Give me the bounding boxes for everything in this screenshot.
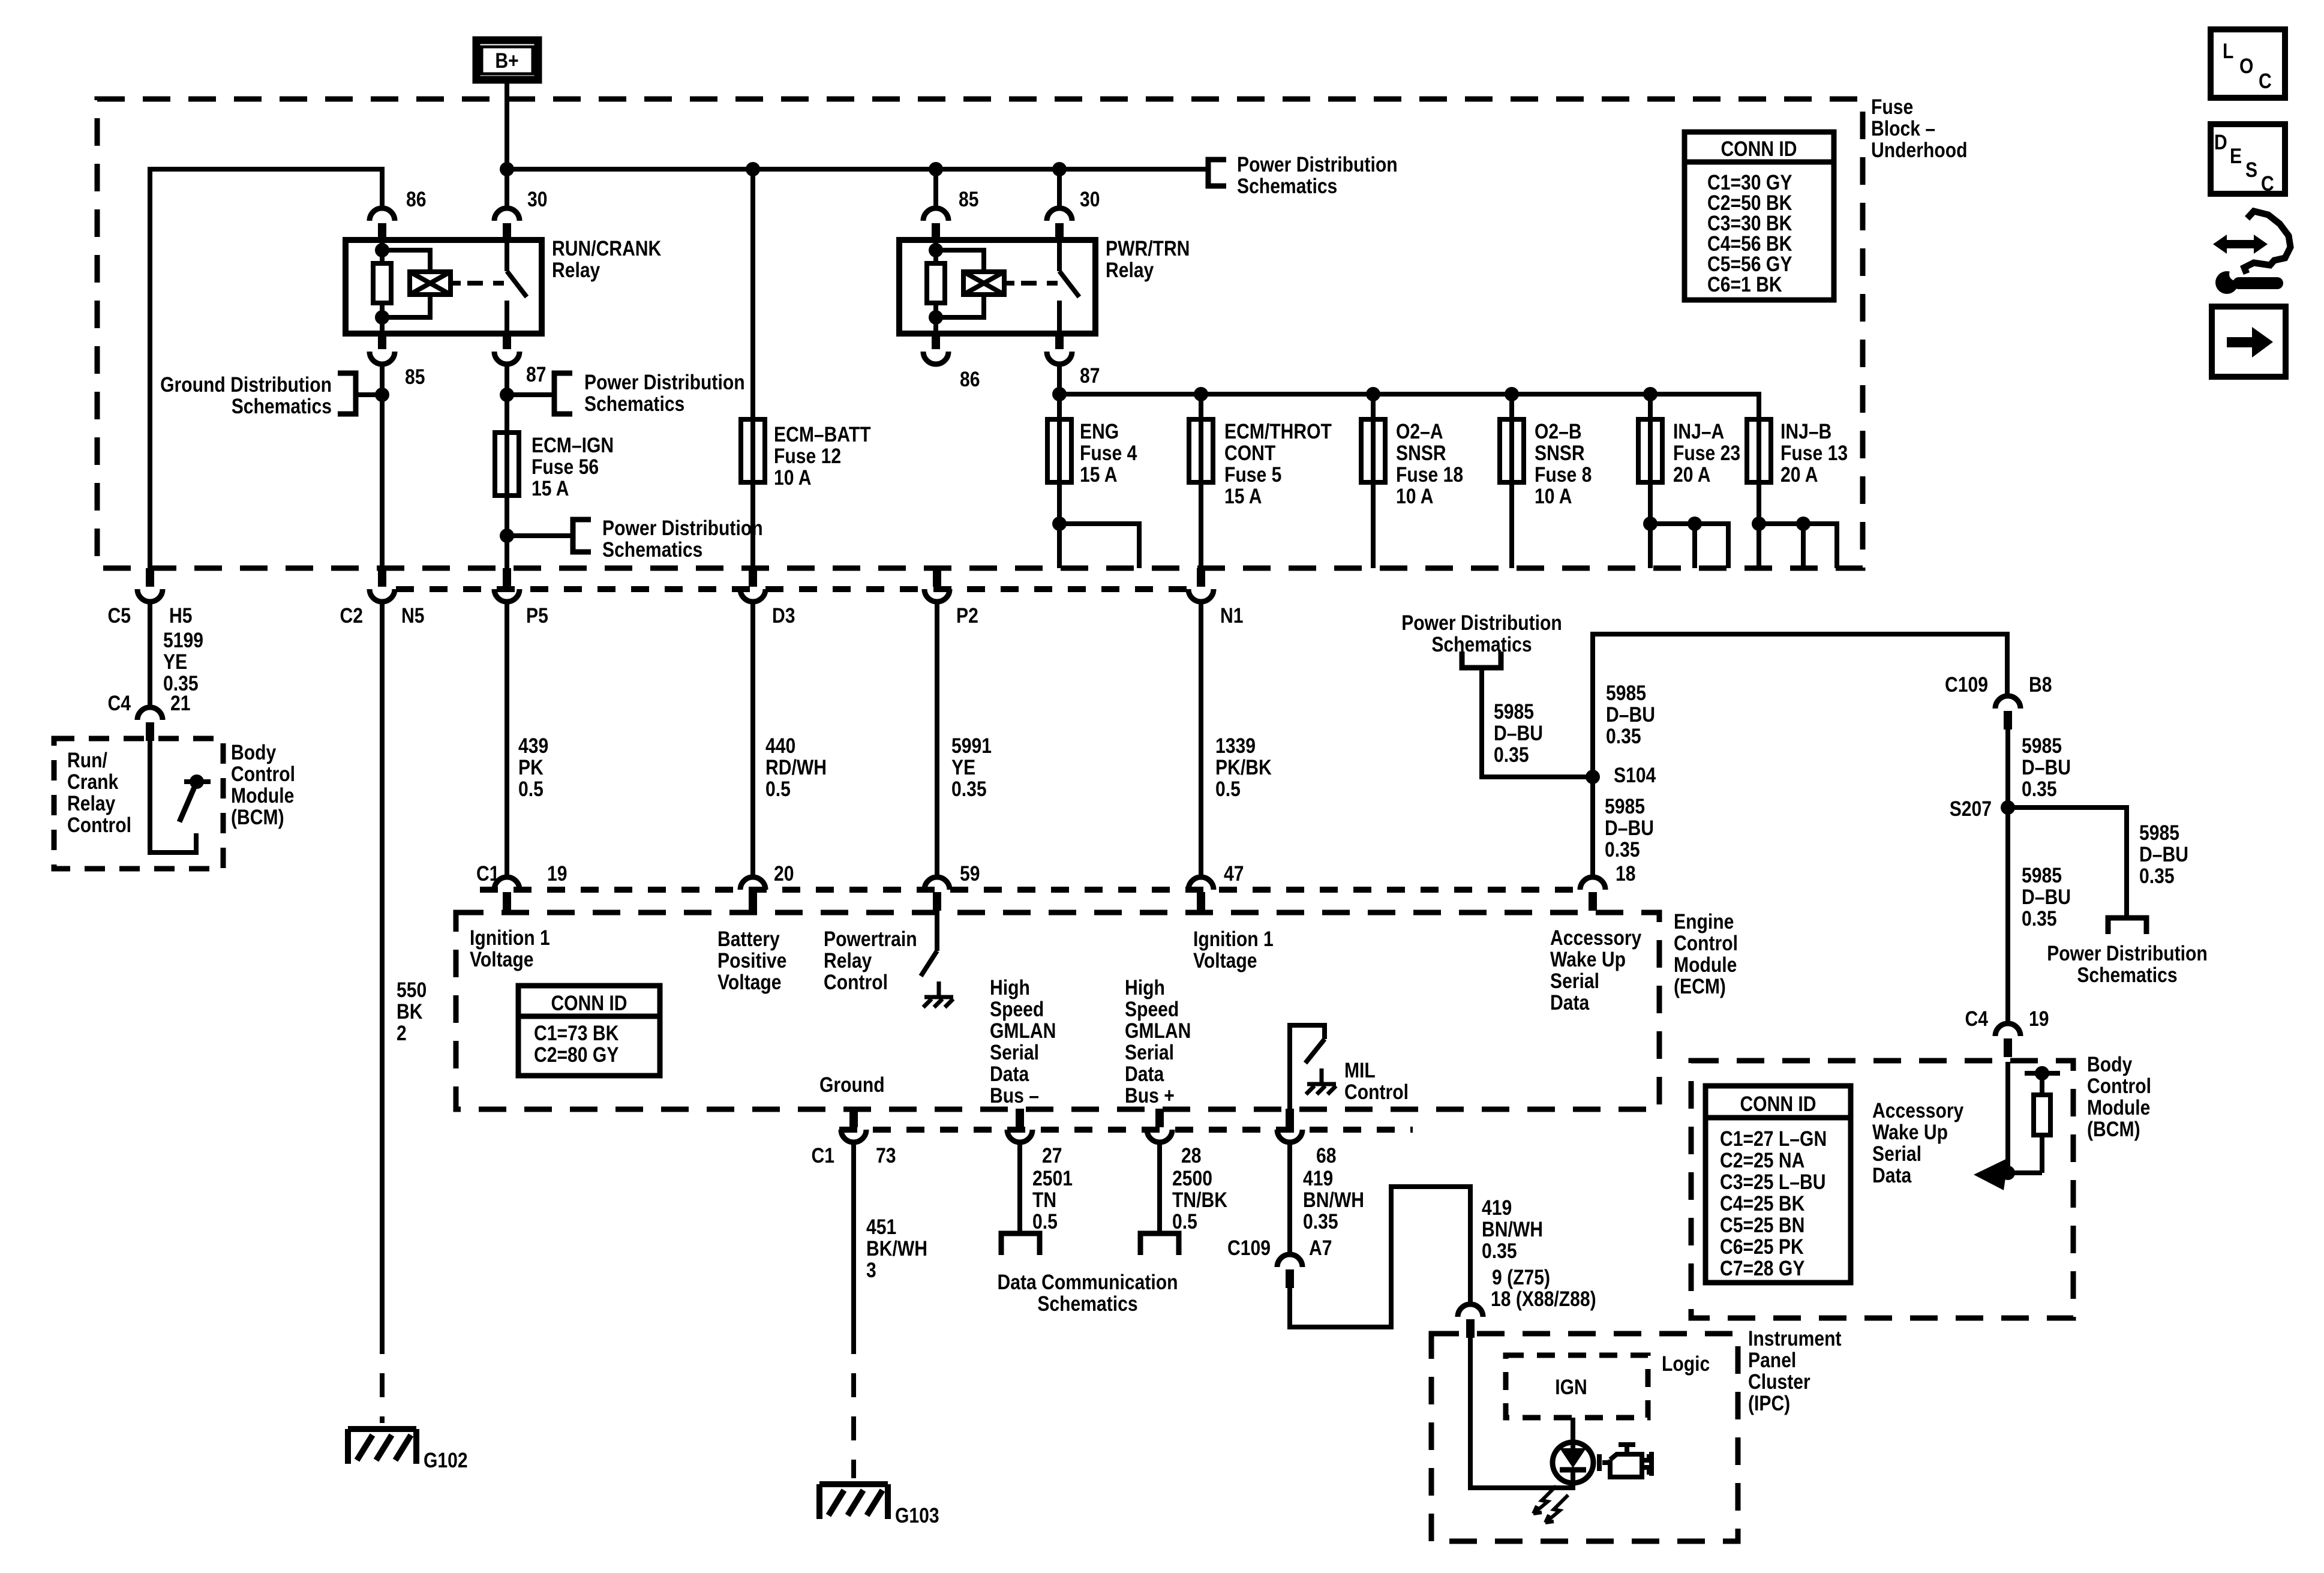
svg-text:Voltage: Voltage [1193, 949, 1257, 972]
relay switch [1059, 240, 1079, 334]
svg-text:TN/BK: TN/BK [1172, 1188, 1227, 1212]
svg-text:CONT: CONT [1224, 442, 1275, 465]
pin 87 connector [1047, 331, 1072, 364]
svg-text:YE: YE [163, 650, 187, 674]
arrow line [1986, 1170, 2042, 1175]
svg-text:0.35: 0.35 [2139, 864, 2175, 888]
svg-text:C1=27 L–GN: C1=27 L–GN [1720, 1127, 1827, 1151]
svg-text:47: 47 [1224, 862, 1244, 885]
svg-text:419: 419 [1482, 1196, 1512, 1220]
ECM pin C1 73 connector [841, 1109, 866, 1142]
wire relay87 to ECM-IGN fuse [505, 364, 509, 568]
svg-text:Fuse: Fuse [1871, 95, 1913, 119]
svg-text:Fuse 23: Fuse 23 [1673, 442, 1740, 465]
svg-text:(IPC): (IPC) [1748, 1392, 1790, 1415]
svg-text:451: 451 [866, 1215, 896, 1239]
wire ECM/THROT column [1199, 394, 1203, 568]
svg-text:Ignition 1: Ignition 1 [1193, 927, 1274, 951]
engine icon [1599, 1445, 1652, 1477]
BCM right dashed box [1691, 1061, 2073, 1318]
svg-text:C5=25 BN: C5=25 BN [1720, 1214, 1804, 1237]
svg-text:Module: Module [2087, 1096, 2150, 1119]
svg-text:Panel: Panel [1748, 1349, 1796, 1372]
svg-text:86: 86 [406, 188, 427, 211]
splice S207 [2001, 800, 2015, 815]
svg-text:Crank: Crank [67, 770, 119, 794]
svg-text:TN: TN [1032, 1188, 1056, 1212]
relay coil branch wires [382, 240, 430, 334]
svg-text:Cluster: Cluster [1748, 1370, 1810, 1394]
connector P2 [924, 568, 950, 602]
svg-text:RD/WH: RD/WH [765, 756, 827, 779]
svg-text:59: 59 [960, 862, 980, 885]
fuse O2-B SNSR Fuse 8 [1500, 419, 1524, 482]
wire pin 28 down [1157, 1142, 1162, 1231]
svg-text:0.35: 0.35 [951, 778, 987, 801]
svg-text:PK: PK [518, 756, 544, 779]
IGN logic dashed box [1506, 1355, 1648, 1418]
svg-text:INJ–A: INJ–A [1673, 420, 1724, 443]
ECM pin 18 connector [1580, 877, 1605, 911]
svg-text:27: 27 [1042, 1144, 1062, 1167]
svg-text:10 A: 10 A [774, 466, 812, 490]
coil stub [451, 281, 461, 286]
CONN ID table fuse block [1685, 132, 1834, 300]
wire C2 column down [380, 602, 385, 1330]
svg-text:Schematics: Schematics [602, 538, 702, 562]
fuse ECM-IGN Fuse 56 [495, 433, 519, 496]
svg-text:Power Distribution: Power Distribution [2047, 942, 2208, 965]
svg-text:5985: 5985 [1605, 795, 1645, 818]
fuse ECM-BATT Fuse 12 [741, 419, 765, 482]
svg-text:5991: 5991 [951, 734, 992, 758]
CONN ID table BCM [1706, 1086, 1851, 1283]
svg-text:Serial: Serial [1872, 1142, 1921, 1166]
svg-text:1339: 1339 [1215, 734, 1256, 758]
wire P5 column down to ECM pin 19 [505, 602, 509, 875]
relay coil box with X [963, 272, 1004, 295]
svg-text:5985: 5985 [1606, 682, 1646, 705]
wrench and arrow icon [2213, 211, 2290, 294]
wire relay87 pwr to bus2 [1057, 364, 1062, 568]
LED light arrows [1533, 1486, 1556, 1514]
svg-text:Power Distribution: Power Distribution [1237, 153, 1398, 176]
svg-text:Relay: Relay [67, 792, 116, 815]
node top bus [150, 169, 382, 568]
svg-text:0.35: 0.35 [1303, 1210, 1338, 1233]
svg-text:0.5: 0.5 [1032, 1210, 1058, 1233]
svg-text:C4: C4 [108, 692, 131, 715]
main serial data net top [1593, 634, 2007, 875]
svg-text:Accessory: Accessory [1550, 926, 1642, 950]
svg-text:5985: 5985 [2139, 821, 2179, 845]
ECM pin 20 connector [740, 877, 765, 911]
wire ground column [851, 1142, 856, 1330]
BCM run/crank dashed box [54, 739, 223, 869]
svg-text:B+: B+ [495, 49, 518, 73]
PWR/TRN relay [899, 169, 1190, 391]
svg-text:Block –: Block – [1871, 117, 1935, 140]
wire B+ down to bus [505, 83, 509, 207]
svg-text:C1: C1 [476, 862, 500, 885]
svg-text:H5: H5 [169, 604, 193, 628]
wire relay85 down to junction [380, 364, 385, 568]
wire to bracket [507, 533, 573, 538]
svg-text:10 A: 10 A [1396, 485, 1434, 508]
pin 30 connector [1047, 208, 1072, 242]
svg-text:Fuse 8: Fuse 8 [1535, 463, 1592, 487]
svg-text:P2: P2 [956, 604, 978, 628]
svg-text:85: 85 [959, 188, 979, 211]
svg-text:19: 19 [547, 862, 568, 885]
svg-text:P5: P5 [526, 604, 548, 628]
svg-text:Data: Data [990, 1062, 1029, 1086]
svg-text:Module: Module [231, 784, 294, 807]
svg-text:Fuse 13: Fuse 13 [1780, 442, 1848, 465]
ECM pin 59 connector [924, 877, 950, 911]
svg-text:O2–A: O2–A [1396, 420, 1443, 443]
svg-text:G103: G103 [895, 1504, 939, 1527]
svg-text:Data: Data [1125, 1062, 1164, 1086]
ECM pin 47 connector [1188, 877, 1214, 911]
wire O2-B column [1509, 394, 1514, 568]
svg-text:SNSR: SNSR [1396, 442, 1446, 465]
svg-text:Bus +: Bus + [1125, 1084, 1175, 1107]
connector C4 19 [1995, 1023, 2020, 1057]
svg-text:Voltage: Voltage [717, 971, 782, 994]
svg-text:IGN: IGN [1555, 1376, 1587, 1399]
ground G102 [348, 1429, 416, 1464]
bus2 horizontal with INJ-B drop [1059, 394, 1759, 568]
connector C109 B8 [1995, 696, 2020, 730]
ECM bottom connector dotted line [839, 1127, 1413, 1133]
wire B+ bus [507, 167, 1208, 172]
svg-text:ENG: ENG [1080, 420, 1119, 443]
svg-text:3: 3 [866, 1259, 876, 1282]
svg-text:High: High [990, 976, 1030, 999]
wire D3 column down to ECM pin 20 [750, 602, 755, 875]
junction dot below fuse 56 [500, 529, 514, 543]
svg-text:D–BU: D–BU [2022, 756, 2071, 779]
svg-text:C1: C1 [812, 1144, 835, 1167]
connector C109 A7 [1277, 1254, 1302, 1288]
svg-text:Fuse 4: Fuse 4 [1080, 442, 1137, 465]
wire A7 jog to IPC [1290, 1187, 1470, 1327]
fuse INJ-A Fuse 23 [1638, 419, 1662, 482]
svg-text:C2: C2 [340, 604, 364, 628]
svg-text:Ground Distribution: Ground Distribution [160, 373, 332, 397]
svg-text:Control: Control [1344, 1080, 1409, 1104]
svg-text:Schematics: Schematics [1431, 633, 1532, 656]
pin 30 connector [494, 208, 520, 242]
svg-text:Data Communication: Data Communication [998, 1271, 1178, 1294]
BCM serial data wire [2005, 1062, 2010, 1173]
pin 86 connector [923, 331, 948, 364]
svg-text:C2=25 NA: C2=25 NA [1720, 1149, 1804, 1172]
svg-text:Relay: Relay [552, 259, 600, 282]
svg-text:Control: Control [824, 971, 888, 994]
svg-text:Schematics: Schematics [584, 392, 684, 416]
DESC icon box [2211, 124, 2285, 196]
svg-text:Bus –: Bus – [990, 1084, 1039, 1107]
svg-text:0.35: 0.35 [2022, 907, 2057, 930]
svg-text:C6=1 BK: C6=1 BK [1707, 273, 1782, 296]
svg-text:D–BU: D–BU [1605, 816, 1654, 840]
svg-text:0.5: 0.5 [765, 778, 791, 801]
svg-text:(ECM): (ECM) [1674, 975, 1726, 998]
svg-text:20 A: 20 A [1673, 463, 1711, 487]
svg-text:0.35: 0.35 [1494, 743, 1529, 767]
bracket power distribution below fuse56 [573, 520, 591, 552]
junction dot bus2 start [1052, 387, 1067, 401]
relay coil branch wires [936, 240, 984, 334]
ECM pin 19 connector [494, 877, 520, 911]
wire bus to pin 85 [933, 169, 938, 207]
svg-text:C1=73 BK: C1=73 BK [534, 1022, 618, 1045]
svg-text:18: 18 [1616, 862, 1636, 885]
ECM top connector dotted line [480, 887, 1580, 893]
LOC icon box [2211, 29, 2285, 98]
junction dot ground distribution [375, 388, 389, 402]
svg-text:10 A: 10 A [1535, 485, 1572, 508]
relay resistor [373, 263, 391, 303]
svg-text:Schematics: Schematics [232, 395, 332, 418]
pin 85 connector [923, 208, 948, 242]
B+ terminal box [476, 40, 538, 80]
svg-text:0.5: 0.5 [1172, 1210, 1197, 1233]
svg-text:D3: D3 [772, 604, 795, 628]
svg-text:Ignition 1: Ignition 1 [470, 926, 550, 950]
svg-text:Schematics: Schematics [2077, 963, 2177, 987]
svg-text:5985: 5985 [2022, 734, 2062, 758]
linkage dashed [1021, 281, 1058, 286]
svg-text:C5: C5 [108, 604, 131, 628]
wire fuse12 column [750, 169, 755, 568]
svg-text:Voltage: Voltage [470, 948, 534, 971]
svg-text:20: 20 [774, 862, 794, 885]
svg-text:Logic: Logic [1662, 1352, 1710, 1376]
svg-text:Underhood: Underhood [1871, 139, 1968, 162]
svg-text:Body: Body [2087, 1053, 2133, 1076]
svg-text:Serial: Serial [990, 1041, 1039, 1064]
svg-text:0.35: 0.35 [1482, 1239, 1517, 1263]
svg-text:A7: A7 [1309, 1236, 1332, 1260]
wire O2-A column [1371, 394, 1376, 568]
svg-text:0.5: 0.5 [518, 778, 544, 801]
pin 87 connector [494, 331, 520, 364]
fuse ENG Fuse 4 [1047, 419, 1071, 482]
svg-text:Accessory: Accessory [1872, 1099, 1964, 1122]
junction dot pwr relay 85 [929, 162, 943, 176]
svg-text:ECM/THROT: ECM/THROT [1224, 420, 1332, 443]
svg-text:0.35: 0.35 [1605, 838, 1640, 861]
junction dot [2001, 1166, 2015, 1180]
svg-text:9 (Z75): 9 (Z75) [1492, 1266, 1550, 1289]
svg-text:D–BU: D–BU [2139, 843, 2188, 866]
IPC dashed box [1431, 1334, 1738, 1541]
svg-text:S104: S104 [1614, 764, 1656, 787]
BCM internal rail [2025, 1071, 2060, 1076]
connector line C2 row dotted [396, 586, 1188, 592]
svg-text:N5: N5 [401, 604, 425, 628]
ECM dashed box [456, 912, 1659, 1109]
fuse ECM/THROT CONT Fuse 5 [1189, 419, 1213, 482]
relay box [899, 240, 1095, 334]
svg-text:L: L [2223, 40, 2233, 63]
switch blade [179, 782, 197, 822]
wire to right bracket [507, 392, 554, 397]
svg-text:BN/WH: BN/WH [1482, 1218, 1543, 1241]
svg-text:Speed: Speed [1125, 998, 1179, 1021]
connector 18 X88/Z88 [1458, 1304, 1483, 1338]
svg-text:440: 440 [765, 734, 795, 758]
svg-text:Fuse 18: Fuse 18 [1396, 463, 1463, 487]
svg-text:PK/BK: PK/BK [1215, 756, 1272, 779]
wire P2 column down to ECM pin 59 [935, 602, 939, 875]
svg-text:Serial: Serial [1550, 969, 1599, 993]
svg-text:Relay: Relay [1106, 259, 1154, 282]
coil stub [1004, 281, 1014, 286]
wire pin 27 down [1017, 1142, 1022, 1231]
connector C5 H5 [137, 568, 163, 602]
svg-text:D–BU: D–BU [1494, 722, 1543, 745]
svg-text:Fuse 56: Fuse 56 [532, 455, 599, 479]
relay resistor [927, 263, 945, 303]
svg-text:87: 87 [1080, 364, 1100, 388]
connector P5 [494, 568, 520, 602]
svg-text:RUN/CRANK: RUN/CRANK [552, 237, 661, 260]
bracket power distribution top right [1208, 160, 1226, 186]
ground G103 [819, 1484, 888, 1519]
svg-text:5985: 5985 [2022, 864, 2062, 887]
dashed wire to G102 [380, 1330, 385, 1423]
junction dot pwr relay 30 [1052, 162, 1067, 176]
svg-text:C4=25 BK: C4=25 BK [1720, 1192, 1804, 1215]
linkage dashed [467, 281, 504, 286]
svg-text:(BCM): (BCM) [2087, 1118, 2140, 1141]
svg-text:D–BU: D–BU [1606, 703, 1655, 727]
svg-text:5199: 5199 [163, 629, 203, 652]
svg-text:GMLAN: GMLAN [1125, 1019, 1191, 1043]
svg-text:2501: 2501 [1032, 1167, 1073, 1190]
junction dot B+ bus [500, 162, 514, 176]
CONN ID table ECM [518, 986, 660, 1076]
fuse block underhood dashed box [97, 99, 1863, 568]
svg-text:Run/: Run/ [67, 749, 107, 772]
svg-text:Wake Up: Wake Up [1872, 1121, 1948, 1144]
bracket data comm 27 [1001, 1233, 1040, 1255]
connector C4 21 [137, 707, 163, 741]
svg-text:GMLAN: GMLAN [990, 1019, 1056, 1043]
pin 86 connector [370, 208, 395, 242]
connector D3 [740, 568, 765, 602]
svg-text:Instrument: Instrument [1748, 1327, 1842, 1350]
svg-text:5985: 5985 [1494, 700, 1534, 724]
bracket power distribution lower right [2108, 918, 2146, 934]
IPC internal wire [1470, 1335, 1573, 1488]
svg-text:INJ–B: INJ–B [1780, 420, 1831, 443]
svg-text:Wake Up: Wake Up [1550, 948, 1626, 971]
svg-text:BN/WH: BN/WH [1303, 1188, 1364, 1212]
svg-text:(BCM): (BCM) [231, 806, 284, 829]
svg-text:19: 19 [2029, 1007, 2049, 1031]
arrow icon box [2212, 307, 2286, 377]
small ground powertrain [923, 981, 953, 1007]
wire B8 to S207 [2005, 727, 2010, 1022]
svg-text:30: 30 [527, 188, 548, 211]
relay switch [507, 240, 527, 334]
BCM pullup resistor [2040, 1073, 2044, 1173]
powertrain relay control switch [921, 912, 937, 976]
svg-text:439: 439 [518, 734, 548, 758]
svg-text:Module: Module [1674, 953, 1737, 977]
wire INJ-A column [1648, 394, 1653, 568]
svg-text:87: 87 [526, 363, 547, 386]
svg-text:Control: Control [1674, 932, 1738, 955]
svg-text:419: 419 [1303, 1167, 1333, 1190]
svg-text:Battery: Battery [717, 927, 780, 951]
ECM pin 28 connector [1147, 1109, 1172, 1142]
svg-text:Control: Control [231, 763, 295, 786]
fuse INJ-B Fuse 13 [1747, 419, 1771, 482]
svg-text:E: E [2230, 145, 2242, 168]
svg-text:C3=25 L–BU: C3=25 L–BU [1720, 1170, 1826, 1194]
svg-text:15 A: 15 A [1224, 485, 1262, 508]
svg-text:Power Distribution: Power Distribution [1401, 611, 1562, 635]
svg-text:CONN ID: CONN ID [551, 992, 627, 1015]
ECM pin 68 connector [1277, 1109, 1302, 1142]
bracket ground distribution [338, 373, 356, 414]
svg-text:2: 2 [397, 1022, 407, 1045]
svg-text:Ground: Ground [819, 1073, 885, 1097]
svg-text:0.35: 0.35 [1606, 725, 1641, 748]
svg-text:86: 86 [960, 368, 980, 391]
svg-text:C: C [2261, 172, 2274, 196]
svg-text:30: 30 [1080, 188, 1100, 211]
splice S104 [1586, 770, 1600, 784]
arrow head [1974, 1158, 2008, 1190]
svg-text:550: 550 [397, 978, 427, 1002]
svg-text:C2=80 GY: C2=80 GY [534, 1043, 618, 1067]
bracket under power distribution [1462, 652, 1501, 668]
svg-text:ECM–BATT: ECM–BATT [774, 423, 871, 446]
BCM internal switch [150, 739, 196, 852]
svg-text:D: D [2214, 131, 2227, 154]
svg-text:Positive: Positive [717, 949, 786, 972]
svg-text:BK/WH: BK/WH [866, 1237, 927, 1260]
svg-text:G102: G102 [424, 1449, 468, 1472]
wire pin 68 down [1287, 1142, 1292, 1253]
connector C2 N5 [370, 568, 395, 602]
svg-text:CONN ID: CONN ID [1740, 1092, 1816, 1116]
svg-text:Body: Body [231, 741, 277, 764]
svg-text:ECM–IGN: ECM–IGN [532, 434, 614, 457]
svg-text:Data: Data [1550, 991, 1590, 1014]
svg-text:Schematics: Schematics [1237, 175, 1337, 198]
svg-text:N1: N1 [1220, 604, 1244, 628]
svg-text:Powertrain: Powertrain [824, 927, 917, 951]
fuse O2-A SNSR Fuse 18 [1361, 419, 1385, 482]
ECM pin 27 connector [1007, 1109, 1032, 1142]
dashed wire to G103 [851, 1330, 856, 1478]
svg-text:S207: S207 [1950, 797, 1992, 821]
wire bus to pin 30 [1057, 169, 1062, 207]
svg-text:Schematics: Schematics [1037, 1292, 1137, 1316]
wire from bracket to S104 [1482, 668, 1593, 777]
svg-text:2500: 2500 [1172, 1167, 1212, 1190]
svg-text:CONN ID: CONN ID [1721, 137, 1797, 161]
svg-text:Power Distribution: Power Distribution [584, 371, 745, 394]
